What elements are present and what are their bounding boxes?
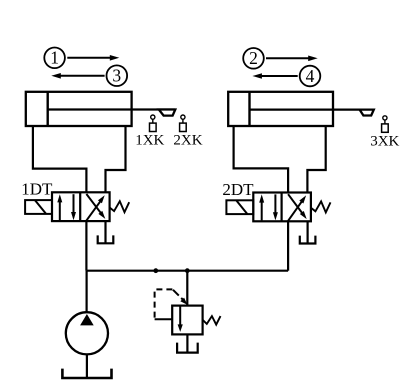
svg-text:2DT: 2DT [222,180,254,199]
main pressure line [86,270,288,272]
cylinder G2 body [228,92,333,126]
relief valve body [172,306,202,335]
pump tank symbol [62,369,111,378]
cylinder G2 piston rod [250,108,374,110]
node label circle 1 [44,48,65,69]
valve U2 return spring [311,201,331,212]
cam dog on G2 rod [360,110,374,116]
cylinder G1 body [26,92,132,126]
cam dog on G1 rod [159,110,176,116]
pump suction pipe [86,354,88,378]
pump B1 flow triangle [80,314,94,325]
limit switch 3XK symbol [382,116,389,133]
relief valve pilot line solid stub [155,318,173,320]
stroke arrow right for step 1 [67,55,119,61]
solenoid 2DT box [226,200,253,214]
pipe G1 rod-end to valve1 port B [106,126,126,192]
pipe G2 cap-end to valve2 port A [234,126,289,193]
limit switch 2XK symbol [180,115,187,132]
svg-text:3XK: 3XK [370,133,399,149]
pump B1 circle [66,312,108,354]
label 2XK [173,132,202,148]
valve U1 parallel-position up arrow [57,194,62,220]
label 2DT [222,180,254,199]
node label circle 2 [243,48,264,69]
pipe main line to pump [85,271,87,313]
label 1XK [135,132,164,148]
svg-text:2: 2 [249,48,258,68]
svg-text:2XK: 2XK [173,132,202,148]
valve U2 crossed arrow down-right [288,194,307,219]
stroke arrow left for step 3 [51,73,104,79]
valve U1 center divider [79,192,81,221]
valve U2 center divider [281,193,283,222]
relief valve spring [203,316,221,325]
valve U2 parallel-position down arrow [273,194,278,220]
pipe G1 cap-end to valve1 port A [33,126,87,192]
svg-text:1XK: 1XK [135,132,164,148]
label 1DT [21,180,53,199]
valve U1 body [52,192,110,221]
junction dot at relief branch [185,268,190,273]
svg-text:1DT: 1DT [21,180,53,199]
valve U1 tank symbol [98,221,114,243]
cylinder G2 piston [248,92,250,126]
relief valve internal flow arrow [178,306,183,332]
limit switch 1XK symbol [150,115,157,132]
junction dot left [153,268,158,273]
svg-text:1: 1 [50,48,59,68]
label 3XK [370,133,399,149]
svg-text:3: 3 [112,66,121,86]
valve U1 crossed arrow up-right [86,195,104,220]
pipe valve1 P to main line [85,221,87,271]
node label circle 4 [300,66,321,87]
solenoid 1DT box [25,200,52,214]
cylinder G1 piston rod [48,108,176,110]
valve U2 parallel-position up arrow [259,194,264,220]
node label circle 3 [107,65,128,86]
stroke arrow left for step 4 [252,73,297,79]
svg-text:4: 4 [306,66,315,86]
valve U2 tank symbol [300,221,316,243]
relief valve pilot dashed diagonal [173,290,187,305]
cylinder G1 piston [47,92,49,126]
pipe main line to relief valve [186,271,188,306]
valve U1 return spring [110,201,130,212]
valve U2 body [253,193,311,222]
relief valve pilot dashed line [155,289,173,319]
valve U1 parallel-position down arrow [71,194,76,220]
pipe G2 rod-end to valve2 port B [307,126,325,193]
valve U2 crossed arrow up-right [288,195,306,220]
valve U1 crossed arrow down-right [86,194,105,219]
pipe valve2 P to main line [287,221,289,270]
stroke arrow right for step 2 [266,56,318,62]
relief valve outlet tank symbol [177,334,198,352]
